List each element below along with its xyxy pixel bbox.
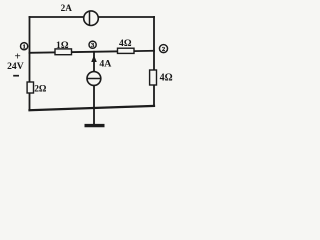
svg-text:24V: 24V bbox=[7, 61, 24, 72]
svg-text:1Ω: 1Ω bbox=[56, 40, 69, 51]
svg-text:+: + bbox=[14, 50, 20, 62]
svg-text:2A: 2A bbox=[61, 3, 73, 13]
svg-text:4Ω: 4Ω bbox=[160, 73, 173, 84]
svg-text:4A: 4A bbox=[99, 59, 111, 70]
svg-text:1: 1 bbox=[22, 44, 25, 51]
svg-text:2Ω: 2Ω bbox=[34, 85, 47, 95]
svg-text:4Ω: 4Ω bbox=[119, 38, 132, 49]
